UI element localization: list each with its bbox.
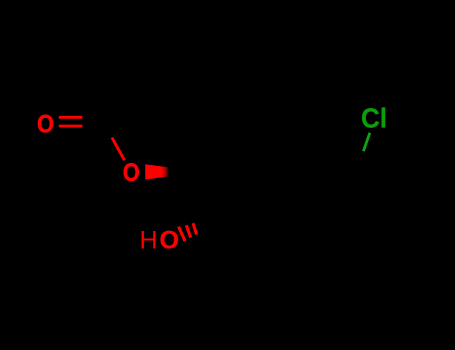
double bond C=O (lower line) [59,125,83,128]
hashed wedge bond C2-OH : dash 1 [179,227,185,241]
hashed wedge bond C2-OH : dash 3 [193,223,197,234]
svg-text:O: O [123,159,140,187]
svg-text:Cl: Cl [361,102,387,133]
svg-text:O: O [37,110,54,138]
double bond C=O (upper line) [59,116,83,119]
bond C-O ester (red half) [112,138,125,161]
svg-text:H: H [140,227,158,255]
wedge bond O-C1 (solid wedge, red half fading) [145,164,168,179]
hashed wedge bond C2-OH : dash 2 [186,225,190,237]
svg-text:O: O [159,227,178,255]
bond C-Cl (green half) [363,133,369,151]
